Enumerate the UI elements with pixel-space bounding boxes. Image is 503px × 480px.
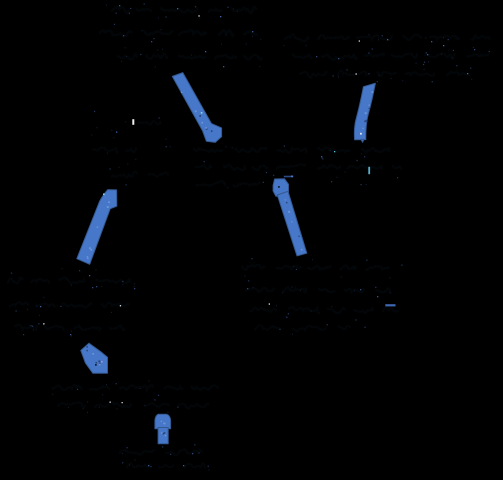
handwriting cluster T3 (mid left, 3 short lines) [93, 121, 168, 177]
handwriting cluster T6 (left, 3 lines) [8, 278, 130, 331]
arrow C (top-right, curving blue stroke pointing down) [354, 83, 375, 142]
arrow A (top-left, thick blue pen stroke pointing down-right) [172, 73, 221, 143]
handwriting cluster T8 (bottom mid-left, 2 lines) [52, 385, 218, 408]
handwriting cluster T7 (centre right, 4 lines) [242, 265, 398, 331]
arrow F (bottom, small blue up arrow with dome head) [155, 414, 171, 444]
handwriting cluster T1 (top centre, 3 lines) [100, 7, 262, 60]
arrow E (lower left, short fat blue stroke pointing down-right) [81, 343, 108, 373]
bright blue horizontal dash in cluster T7 [385, 304, 395, 306]
handwriting cluster T2 (top right, 3 lines) [285, 34, 490, 77]
ink texture dots on arrows [86, 91, 373, 436]
white dash mark near cluster T3 [132, 119, 134, 125]
handwriting cluster T9 (bottom centre, 2 lines) [120, 450, 205, 468]
faint blue dash right of arrow B head [284, 176, 293, 178]
arrow B (centre, blue stroke with chunky head at top) [273, 179, 307, 256]
handwriting cluster T4-T5 (centre band, 3 lines) [194, 147, 402, 186]
cyan streak near cluster T5 [368, 167, 370, 174]
arrow D (left, blue stroke with block head at top) [77, 190, 117, 265]
